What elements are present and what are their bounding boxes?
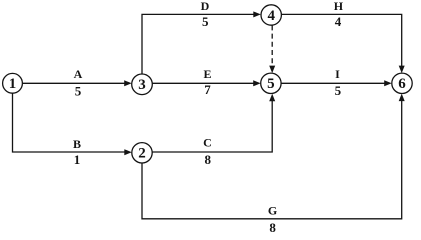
svg-text:5: 5 bbox=[75, 83, 82, 98]
svg-text:4: 4 bbox=[335, 14, 342, 29]
svg-text:5: 5 bbox=[202, 14, 209, 29]
node 6 bbox=[392, 73, 412, 93]
svg-text:5: 5 bbox=[267, 76, 275, 92]
svg-text:7: 7 bbox=[204, 82, 211, 97]
wire I: arrow from node 5 to node 6 bbox=[281, 80, 392, 86]
wire C: from node 2 right then up to node 5 bbox=[152, 94, 275, 152]
svg-text:C: C bbox=[203, 136, 212, 150]
svg-text:3: 3 bbox=[138, 77, 146, 93]
svg-text:I: I bbox=[335, 67, 340, 81]
svg-text:B: B bbox=[73, 137, 81, 151]
wire E: arrow from node 3 to node 5 bbox=[152, 80, 260, 86]
svg-text:A: A bbox=[74, 67, 83, 81]
wire H: from node 4 right then down to node 6 bbox=[281, 14, 404, 73]
svg-text:8: 8 bbox=[269, 220, 276, 235]
svg-text:2: 2 bbox=[138, 146, 146, 162]
node 1 bbox=[3, 73, 23, 93]
dashed dummy activity arrow from node 4 to node 5 bbox=[269, 25, 275, 73]
svg-text:H: H bbox=[334, 0, 344, 13]
svg-text:1: 1 bbox=[9, 76, 17, 92]
svg-text:G: G bbox=[268, 204, 277, 218]
wire B: from node 1 down then right to node 2 bbox=[13, 93, 132, 155]
node 2 bbox=[132, 143, 152, 163]
svg-text:8: 8 bbox=[205, 152, 212, 167]
wire D: from node 3 up then right to node 4 bbox=[142, 11, 261, 74]
node 5 bbox=[261, 73, 281, 93]
svg-text:5: 5 bbox=[335, 83, 342, 98]
node 3 bbox=[132, 74, 153, 95]
wire G: from node 2 down, right along bottom, then up to node 6 bbox=[142, 94, 405, 219]
svg-text:4: 4 bbox=[267, 8, 275, 24]
node 4 bbox=[261, 5, 281, 25]
svg-text:D: D bbox=[201, 0, 210, 13]
svg-text:6: 6 bbox=[398, 76, 406, 92]
svg-text:1: 1 bbox=[74, 152, 81, 167]
svg-text:E: E bbox=[203, 67, 211, 81]
wire A: arrow from node 1 to node 3 bbox=[22, 80, 131, 86]
